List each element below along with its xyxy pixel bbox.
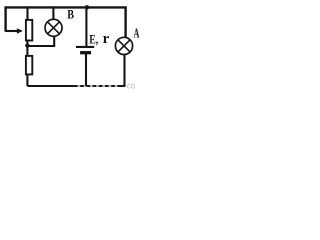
battery E,r positive plate (long) xyxy=(76,46,94,48)
wire: top rail with left and right verticals xyxy=(6,7,126,37)
wire: branch from junction to lamp B bottom xyxy=(27,37,54,46)
svg-text:A: A xyxy=(134,27,140,42)
svg-text:B: B xyxy=(67,7,74,21)
node: junction dot below R1 xyxy=(25,43,29,47)
arrowhead of wiper pointing at resistor R1 xyxy=(17,28,23,34)
svg-text:E,: E, xyxy=(89,33,98,47)
node: battery top junction dot xyxy=(85,5,89,9)
wire: battery top lead xyxy=(85,7,87,46)
lamp A (circle with X) xyxy=(115,37,132,54)
wire: bottom rail watermark-faded part (dashed look) xyxy=(74,85,125,87)
resistor R2 xyxy=(26,56,32,75)
battery E,r negative plate (short thick) xyxy=(80,51,91,54)
wire: stub from bottom rail up to lamp A xyxy=(123,54,125,86)
wire: stub from top rail to resistor R1 xyxy=(26,7,28,20)
wire: stub from junction down to resistor R2 xyxy=(26,46,28,56)
wire: stub below R2 to bottom rail xyxy=(26,74,28,86)
wire: stub from top rail to lamp B xyxy=(52,7,54,19)
wire: bottom rail solid part xyxy=(27,85,74,87)
resistor R1 (rheostat body) xyxy=(26,20,32,41)
wire: battery bottom lead xyxy=(85,54,87,87)
svg-text:co: co xyxy=(127,82,136,89)
wire: rheostat wiper arrow line xyxy=(5,30,19,32)
svg-text:r: r xyxy=(103,31,110,47)
wire: stub below R1 to junction xyxy=(26,41,28,47)
lamp B (circle with X) xyxy=(45,19,62,36)
